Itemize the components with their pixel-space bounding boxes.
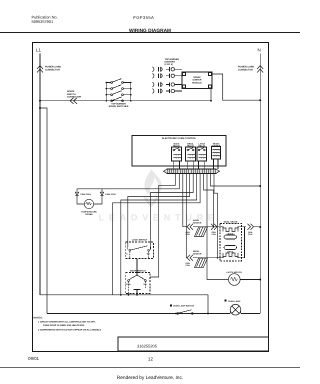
svg-text:2 COMPONENTS WITH ■ DO NOT A: 2 COMPONENTS WITH ■ DO NOT APPEAR ON ALL… (38, 328, 102, 331)
svg-text:OVEN DOOR CLOSED AND UNLOCKED: OVEN DOOR CLOSED AND UNLOCKED (43, 324, 85, 327)
svg-text:CONNECTOR: CONNECTOR (238, 68, 253, 71)
broil igniter element (195, 258, 208, 268)
svg-text:BROIL: BROIL (193, 250, 200, 253)
svg-text:TOP BURNER: TOP BURNER (111, 103, 126, 106)
svg-text:CON: CON (212, 233, 217, 236)
latch motor (229, 274, 261, 286)
bake igniter element (195, 227, 208, 237)
junction dots group (39, 99, 261, 314)
broil igniter row (187, 255, 220, 268)
transformer T1 (212, 147, 221, 170)
branch jog to second left vertical (40, 108, 47, 314)
spark igniter module box (182, 72, 212, 89)
connector chevrons broil in (187, 255, 193, 261)
wire pin6 to lock switch NO (151, 174, 194, 248)
svg-text:IGNITER: IGNITER (193, 79, 202, 82)
svg-text:FORMER: FORMER (212, 145, 221, 148)
wire pin11 to neutral (211, 174, 261, 187)
svg-text:IGNITER: IGNITER (193, 222, 202, 225)
wire valve to neutral (242, 226, 247, 228)
svg-text:COM: COM (126, 283, 131, 286)
svg-text:C: C (126, 253, 128, 256)
oven lamp switch (177, 310, 193, 315)
top burner igniter row 2 (153, 73, 183, 78)
wire pin7 to bottom bus (121, 174, 197, 295)
svg-text:PROBE: PROBE (85, 213, 93, 216)
lock switch box (126, 242, 154, 273)
label oven lamp (225, 300, 227, 302)
strip pin hatch marks (169, 169, 213, 173)
svg-text:BROIL: BROIL (227, 250, 234, 253)
spark switch 3 (106, 94, 110, 96)
svg-text:N: N (258, 48, 261, 53)
node N wire down (259, 54, 261, 314)
connector chevrons bake in (187, 224, 193, 230)
svg-text:RELAY: RELAY (173, 145, 180, 148)
relay K3 latch (197, 147, 207, 169)
lamp to neutral wire (241, 313, 260, 315)
power cord connector right chevrons (257, 66, 263, 73)
door switch box (126, 273, 150, 295)
power cord connector left chevrons (37, 66, 43, 73)
svg-text:09/01: 09/01 (28, 356, 40, 361)
svg-text:SPARK: SPARK (193, 76, 201, 79)
wire module to L1 line (210, 89, 212, 101)
wire pin4 to broil igniter (185, 174, 188, 258)
bake igniter row (187, 224, 220, 237)
temperature probe element (84, 199, 93, 208)
svg-text:LOCK SWITCH: LOCK SWITCH (132, 239, 148, 242)
svg-text:NO: NO (147, 253, 150, 256)
svg-text:CON: CON (186, 264, 191, 267)
broil valve coil (223, 253, 238, 257)
svg-text:CONNECTOR: CONNECTOR (45, 68, 60, 71)
svg-text:CON: CON (186, 233, 191, 236)
svg-text:TOP BURNER: TOP BURNER (165, 58, 180, 61)
svg-text:12: 12 (148, 357, 153, 362)
connector chevrons bake out (211, 224, 217, 230)
svg-text:BAKE: BAKE (193, 219, 200, 222)
svg-text:NOTES:: NOTES: (34, 316, 43, 319)
wire probe loop left (76, 189, 78, 192)
relay K2 broil (186, 147, 196, 169)
broil valve body (224, 246, 237, 250)
svg-text:BAKE: BAKE (228, 232, 234, 235)
footer rule (0, 367, 300, 369)
svg-text:IGNITER: IGNITER (193, 253, 202, 256)
top burner igniter row 4 (153, 89, 183, 94)
wire pin10 to latch motor (207, 174, 228, 280)
switch bank junction dots (106, 82, 132, 102)
node L1 wire down (39, 54, 41, 295)
svg-text:SPARK SWITCHES: SPARK SWITCHES (109, 105, 129, 108)
svg-text:POWER CORD: POWER CORD (238, 66, 254, 69)
dual valve box (220, 224, 260, 262)
wire pin12 to broil valve feed (214, 174, 218, 258)
svg-text:L1: L1 (36, 48, 41, 53)
harness junction dots (213, 226, 219, 259)
bottom bus wire y=294.8 (40, 295, 208, 314)
bake valve body (224, 235, 237, 239)
probe connector left (75, 192, 78, 195)
svg-text:RELAY: RELAY (187, 145, 194, 148)
wire pin2 to temperature probe (77, 174, 179, 189)
watermark flame logo (143, 169, 162, 208)
part number box (118, 337, 269, 351)
svg-text:SWITCH: SWITCH (67, 93, 76, 96)
wire pin1 to door switch NO (150, 174, 175, 278)
svg-text:FGF355A: FGF355A (133, 15, 154, 20)
svg-text:SPARK: SPARK (67, 90, 75, 93)
wire pin9 to bake valve feed (204, 174, 214, 227)
svg-text:DOOR SWITCH: DOOR SWITCH (130, 269, 146, 272)
svg-text:TEMPERATURE: TEMPERATURE (81, 211, 97, 214)
spark switch 1 (106, 82, 110, 84)
bake valve coil (223, 228, 238, 232)
svg-text:CON: CON (248, 233, 253, 236)
svg-text:OVEN LAMP SWITCH: OVEN LAMP SWITCH (173, 305, 195, 308)
main L1 horizontal wire (40, 100, 211, 102)
EOC connector strip P1 (164, 169, 220, 174)
svg-text:POWER CORD: POWER CORD (45, 66, 61, 69)
svg-text:1 CIRCUIT SHOWN WITH ALL CON: 1 CIRCUIT SHOWN WITH ALL CONTROLS SET TO… (38, 320, 96, 323)
top burner igniter row 1 (153, 67, 183, 72)
wire pin8 to bottom bus (113, 174, 201, 295)
svg-text:NO: NO (144, 283, 147, 286)
svg-text:ELECTRONIC OVEN CONTROL: ELECTRONIC OVEN CONTROL (162, 137, 197, 140)
svg-text:CONNECTOR: CONNECTOR (67, 96, 81, 99)
probe connector right (100, 192, 103, 195)
svg-text:OVEN LAMP: OVEN LAMP (228, 300, 241, 303)
top burner igniter row 3 (153, 82, 183, 87)
svg-text:LATCH MOTOR: LATCH MOTOR (226, 271, 242, 274)
svg-text:(2 OF 4): (2 OF 4) (165, 63, 173, 66)
svg-text:PINK CON: PINK CON (106, 193, 117, 196)
svg-text:Rendered by LeadVenture, Inc.: Rendered by LeadVenture, Inc. (117, 375, 183, 381)
header rule (0, 32, 300, 34)
oven lamp (230, 304, 241, 315)
top burner spark switch bank (106, 79, 131, 102)
wire pin3 to bake igniter (183, 174, 187, 227)
relay K1 bake (172, 147, 182, 169)
svg-text:DUAL VALVE: DUAL VALVE (224, 220, 238, 223)
spark switch 4 (111, 100, 113, 102)
electronic oven control box (132, 136, 226, 167)
svg-text:316255205: 316255205 (137, 344, 158, 349)
bottom lamp wire y=313.5 (47, 313, 230, 315)
wire pin5 to lock switch C (128, 174, 190, 248)
spark switch 2 (106, 88, 110, 90)
svg-text:RELAY: RELAY (198, 145, 205, 148)
temperature probe circuit (75, 189, 103, 209)
harness wires from EOC connector (77, 174, 260, 295)
svg-text:PINK CON: PINK CON (81, 193, 92, 196)
spark switch connector chevrons (70, 98, 77, 104)
diagram border frame (33, 43, 269, 352)
wire module to neutral (212, 74, 260, 100)
label oven lamp switch (170, 304, 172, 306)
svg-text:IGNITERS: IGNITERS (165, 61, 176, 64)
svg-text:MODULE: MODULE (192, 81, 202, 84)
svg-text:5995357901: 5995357901 (32, 19, 54, 24)
